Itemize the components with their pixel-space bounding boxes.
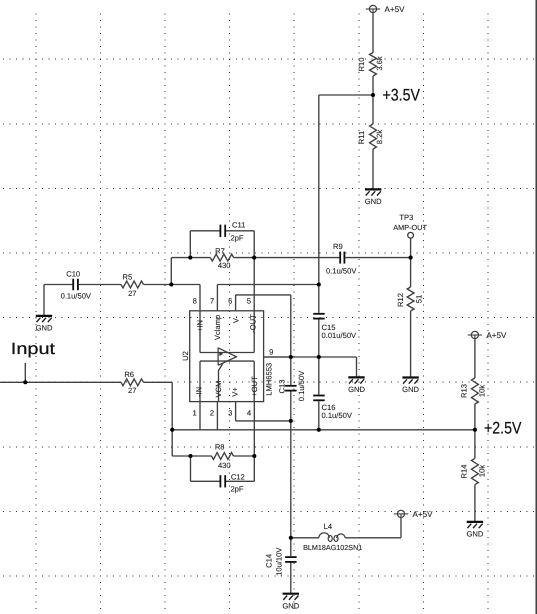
svg-text:C10: C10 (66, 270, 80, 279)
svg-text:V+: V+ (230, 387, 239, 397)
svg-text:10u/10V: 10u/10V (274, 547, 283, 576)
svg-text:0.1u/50V: 0.1u/50V (322, 411, 353, 420)
svg-text:+2.5V: +2.5V (484, 419, 522, 438)
svg-text:A+5V: A+5V (413, 510, 434, 519)
svg-text:GND: GND (365, 197, 382, 206)
svg-text:A+5V: A+5V (385, 5, 406, 14)
svg-text:AMP-OUT: AMP-OUT (393, 223, 427, 232)
svg-text:+OUT: +OUT (250, 376, 259, 397)
svg-text:430: 430 (218, 461, 231, 470)
svg-text:+IN: +IN (196, 320, 205, 332)
svg-text:27: 27 (128, 289, 136, 298)
svg-text:3.6k: 3.6k (375, 56, 384, 71)
svg-text:1: 1 (192, 409, 196, 418)
svg-text:VCM: VCM (214, 381, 223, 398)
svg-text:27: 27 (128, 386, 136, 395)
svg-text:7: 7 (210, 297, 214, 306)
svg-text:0.1u/50V: 0.1u/50V (61, 291, 92, 300)
svg-text:3: 3 (228, 409, 232, 418)
svg-text:R13: R13 (460, 384, 469, 398)
svg-text:R10: R10 (357, 58, 366, 72)
svg-text:R9: R9 (333, 242, 343, 251)
svg-text:L4: L4 (324, 522, 332, 531)
svg-text:0.1u/50V: 0.1u/50V (297, 370, 306, 401)
svg-text:V-: V- (231, 315, 240, 323)
svg-text:R7: R7 (215, 247, 225, 256)
svg-text:2: 2 (210, 409, 214, 418)
svg-text:BLM18AG102SN1: BLM18AG102SN1 (303, 543, 362, 552)
svg-text:430: 430 (218, 261, 231, 270)
svg-text:51: 51 (415, 295, 424, 303)
svg-text:0.1u/50V: 0.1u/50V (326, 267, 357, 276)
svg-text:10k: 10k (478, 385, 487, 397)
svg-text:GND: GND (402, 385, 419, 394)
svg-text:Input: Input (11, 340, 56, 358)
svg-text:Vclamp: Vclamp (213, 315, 222, 340)
svg-text:R11: R11 (357, 131, 366, 144)
svg-text:GND: GND (36, 324, 53, 333)
svg-text:GND: GND (466, 530, 483, 539)
svg-text:R8: R8 (215, 442, 225, 451)
svg-text:9: 9 (269, 347, 273, 356)
svg-text:TP3: TP3 (399, 213, 413, 222)
svg-text:2pF: 2pF (230, 484, 243, 493)
svg-text:R14: R14 (460, 465, 469, 479)
svg-text:GND: GND (348, 385, 365, 394)
svg-text:R6: R6 (124, 370, 134, 379)
svg-text:6: 6 (228, 297, 232, 306)
svg-text:C14: C14 (265, 554, 274, 568)
svg-text:0.01u/50V: 0.01u/50V (322, 331, 358, 340)
svg-text:-IN: -IN (195, 387, 204, 397)
svg-text:R12: R12 (396, 293, 405, 307)
svg-text:8.2k: 8.2k (375, 130, 384, 145)
svg-text:-OUT: -OUT (248, 314, 257, 333)
svg-text:8: 8 (193, 297, 197, 306)
svg-text:C13: C13 (277, 380, 286, 394)
svg-text:2pF: 2pF (230, 233, 243, 242)
svg-text:LMH6553: LMH6553 (265, 363, 274, 396)
svg-text:GND: GND (282, 601, 299, 610)
svg-text:10k: 10k (478, 465, 487, 477)
svg-text:+3.5V: +3.5V (383, 86, 421, 105)
svg-text:R5: R5 (123, 272, 133, 281)
svg-text:C12: C12 (231, 473, 245, 482)
svg-text:4: 4 (247, 409, 251, 418)
svg-text:A+5V: A+5V (486, 331, 507, 340)
svg-text:U2: U2 (181, 351, 190, 361)
svg-text:C11: C11 (232, 221, 245, 230)
svg-text:5: 5 (247, 297, 251, 306)
